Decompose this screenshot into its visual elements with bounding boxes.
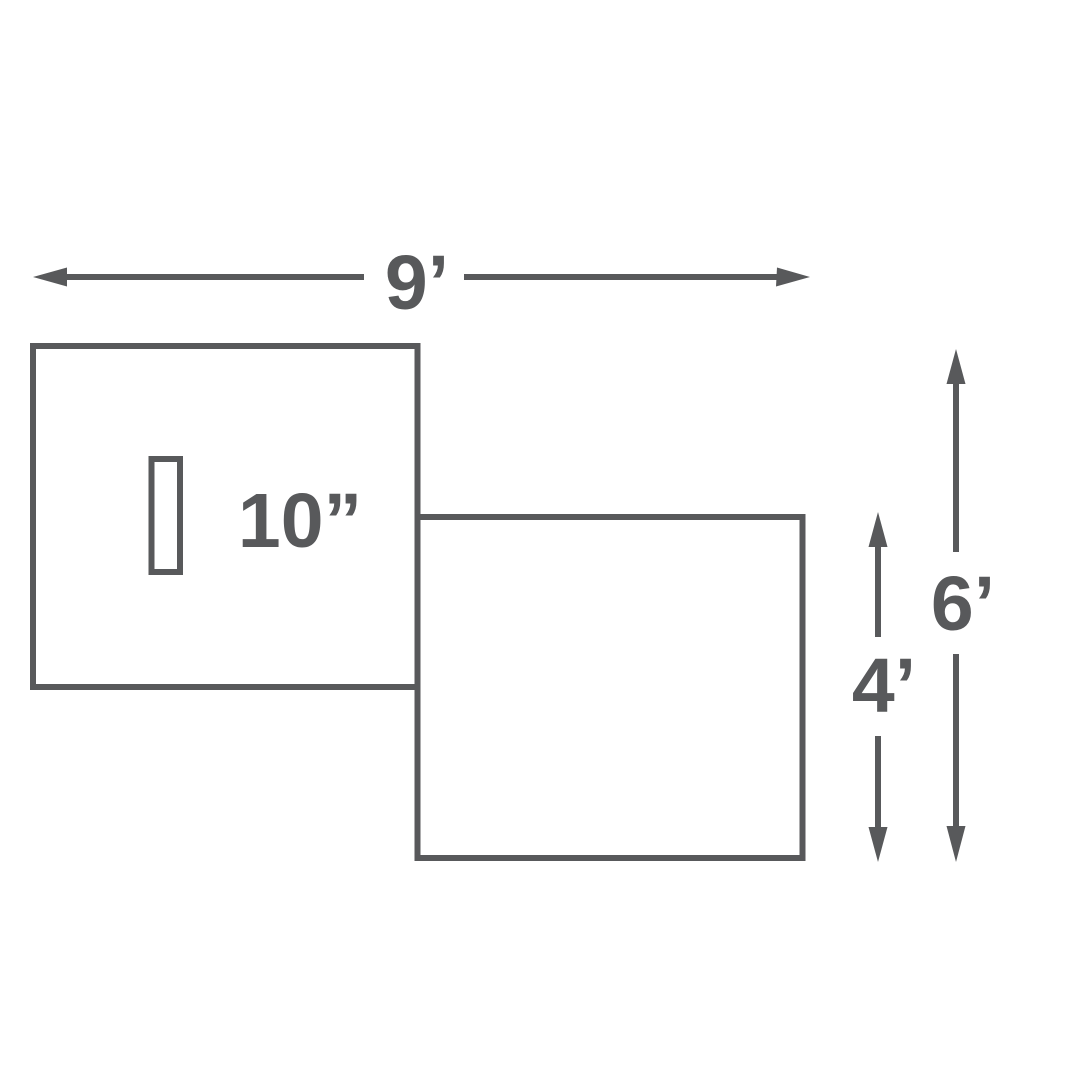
- right square panel: [418, 517, 803, 858]
- horizontal dimension arrow 9 ft: left arrowhead: [33, 268, 67, 287]
- left square panel: [33, 346, 418, 687]
- vertical dimension arrow 6 ft: top arrowhead: [947, 349, 966, 384]
- label 6 ft: [931, 561, 995, 647]
- inner slot rectangle: [152, 459, 181, 572]
- vertical dimension arrow 4 ft: bottom arrowhead: [869, 827, 888, 862]
- svg-text:6’: 6’: [931, 561, 995, 647]
- vertical dimension arrow 6 ft: lower segment: [953, 654, 959, 827]
- label 9 ft: [385, 240, 449, 326]
- vertical dimension arrow 6 ft: upper segment: [953, 382, 959, 552]
- vertical dimension arrow 6 ft: bottom arrowhead: [947, 826, 966, 862]
- svg-text:9’: 9’: [385, 240, 449, 326]
- label 4 ft: [852, 643, 916, 729]
- vertical dimension arrow 4 ft: upper segment: [875, 545, 881, 637]
- vertical dimension arrow 4 ft: lower segment: [875, 736, 881, 828]
- svg-text:4’: 4’: [852, 643, 916, 729]
- horizontal dimension arrow 9 ft: right segment: [464, 274, 781, 280]
- svg-text:10”: 10”: [238, 478, 362, 564]
- label 10 in: [238, 478, 362, 564]
- horizontal dimension arrow 9 ft: right arrowhead: [776, 268, 810, 287]
- vertical dimension arrow 4 ft: top arrowhead: [869, 512, 888, 547]
- horizontal dimension arrow 9 ft: left segment: [62, 274, 364, 280]
